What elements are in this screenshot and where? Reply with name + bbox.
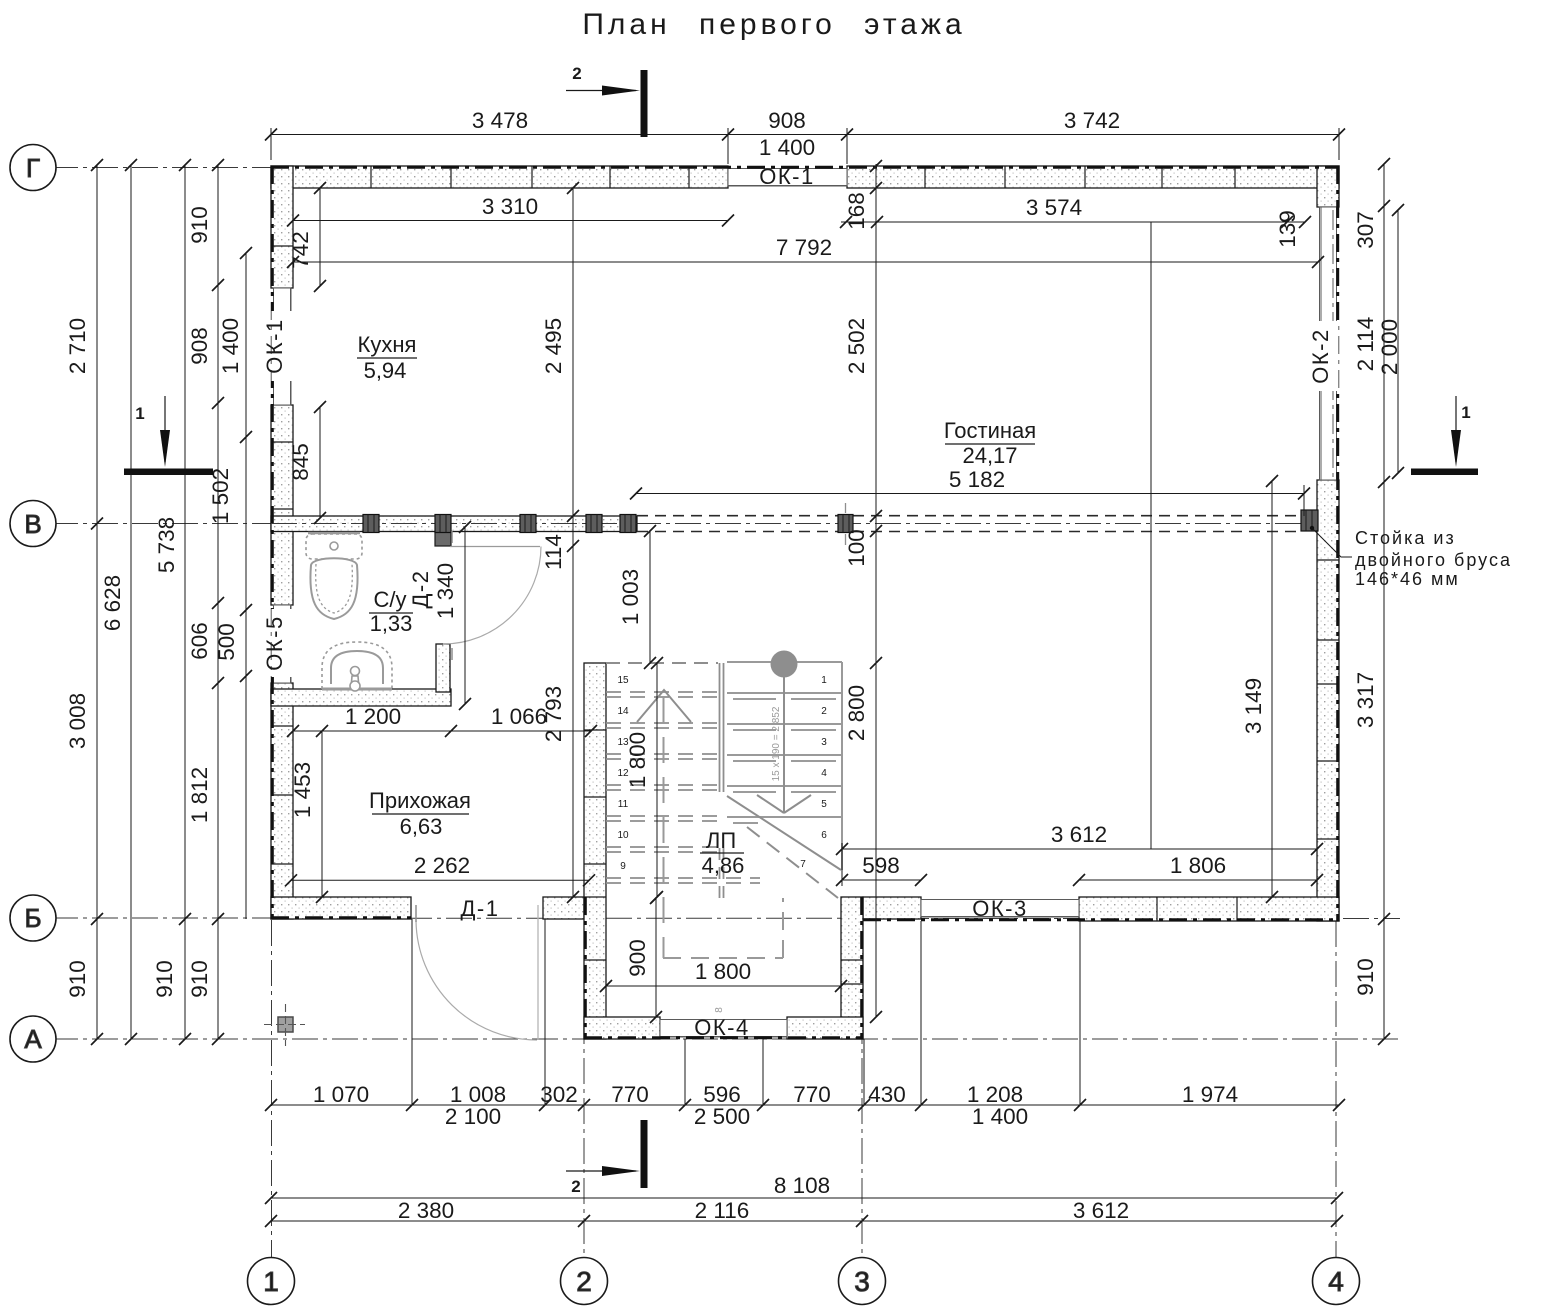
right dim column 2000 xyxy=(1397,210,1399,473)
sink back edge xyxy=(322,688,392,691)
axis В centerline over interior wall xyxy=(271,523,637,525)
up direction chevron on left flight xyxy=(637,690,691,722)
window ОК-1 left opening xyxy=(274,288,292,405)
post joint detail lines xyxy=(368,510,1312,533)
dim line 1200/1066 xyxy=(293,730,591,732)
left dim column d xyxy=(217,165,219,1039)
svg-text:1 806: 1 806 xyxy=(1170,853,1226,878)
dim line 1800 vestibule xyxy=(606,985,841,987)
window ОК-5 left opening xyxy=(274,605,292,683)
stair top boundary right part solid xyxy=(727,661,842,663)
svg-text:3 612: 3 612 xyxy=(1073,1198,1129,1223)
svg-text:2: 2 xyxy=(576,1266,592,1297)
up arrow dashed tail xyxy=(663,697,665,958)
dim line 3574 xyxy=(841,221,1305,223)
svg-text:5: 5 xyxy=(821,799,827,810)
top dimension line 3478/908/3742 xyxy=(271,134,1339,136)
witness lines bottom xyxy=(411,919,413,1105)
axis bubble 4 xyxy=(1313,1258,1360,1305)
svg-text:8 108: 8 108 xyxy=(774,1173,830,1198)
svg-text:3 149: 3 149 xyxy=(1241,678,1266,734)
svg-text:ОК-5: ОК-5 xyxy=(262,615,287,671)
stair / vestibule left wall xyxy=(584,663,606,1039)
svg-text:500: 500 xyxy=(214,623,239,661)
svg-text:1 812: 1 812 xyxy=(187,767,212,823)
svg-text:2 495: 2 495 xyxy=(541,318,566,374)
right exterior wall xyxy=(1317,166,1339,921)
svg-text:1 400: 1 400 xyxy=(218,318,243,374)
dim line 7792 xyxy=(293,261,1318,263)
left dim column a xyxy=(96,165,98,1039)
svg-text:1: 1 xyxy=(135,404,144,423)
witness x842 xyxy=(841,843,843,886)
left flight step numbers xyxy=(617,675,629,872)
svg-text:7 792: 7 792 xyxy=(776,235,832,260)
svg-text:3 574: 3 574 xyxy=(1026,195,1082,220)
svg-text:908: 908 xyxy=(187,327,212,365)
svg-text:910: 910 xyxy=(187,206,212,244)
svg-text:3 478: 3 478 xyxy=(472,108,528,133)
svg-text:1 502: 1 502 xyxy=(208,468,233,524)
door Д-2 threshold marks xyxy=(451,531,453,660)
toilet tank button xyxy=(330,542,338,550)
toilet bowl xyxy=(310,558,357,619)
svg-text:2 502: 2 502 xyxy=(844,318,869,374)
top wall outer face axis xyxy=(271,166,1339,169)
dim 1340 column xyxy=(464,527,466,704)
vestibule left wall outer face xyxy=(584,897,587,1039)
left exterior wall xyxy=(271,166,293,919)
svg-text:Кухня: Кухня xyxy=(358,332,417,357)
bottom dim row 1 xyxy=(271,1104,1339,1106)
svg-text:Гостиная: Гостиная xyxy=(944,418,1036,443)
post at right wall (double timber) xyxy=(1301,510,1318,531)
axis В centerline through beam xyxy=(275,523,1339,525)
svg-text:2 793: 2 793 xyxy=(541,686,566,742)
newel circle xyxy=(771,651,798,678)
svg-text:ОК-1: ОК-1 xyxy=(262,318,287,374)
bottom wall outer face right xyxy=(863,918,1339,921)
svg-text:В: В xyxy=(24,509,41,539)
svg-text:1 340: 1 340 xyxy=(433,563,458,619)
dim line 5182 xyxy=(636,493,1304,495)
svg-text:598: 598 xyxy=(862,853,900,878)
left wall outer face axis xyxy=(271,166,274,919)
axis bubble 3 xyxy=(839,1258,886,1305)
right wall block joints xyxy=(1317,560,1339,839)
svg-text:6 628: 6 628 xyxy=(100,575,125,631)
svg-text:2 262: 2 262 xyxy=(414,853,470,878)
dim line 598 / 1806 xyxy=(842,879,921,881)
svg-text:6,63: 6,63 xyxy=(400,814,443,839)
svg-text:11: 11 xyxy=(618,799,629,810)
axis bubble В xyxy=(10,501,56,547)
lower flight dashed outline xyxy=(663,898,783,958)
svg-text:ОК-1: ОК-1 xyxy=(759,164,815,189)
svg-text:А: А xyxy=(24,1024,42,1054)
svg-text:7: 7 xyxy=(800,859,806,870)
vestibule right wall xyxy=(841,897,863,1039)
top exterior wall xyxy=(271,166,1339,188)
axis bubble А xyxy=(10,1016,56,1062)
svg-text:1 800: 1 800 xyxy=(695,959,751,984)
door Д-2 leaf xyxy=(450,546,540,548)
svg-text:4,86: 4,86 xyxy=(702,853,745,878)
door Д-1 closed stub xyxy=(415,905,417,922)
svg-text:1 066: 1 066 xyxy=(491,704,547,729)
svg-text:8: 8 xyxy=(714,1007,725,1013)
svg-text:302: 302 xyxy=(540,1082,578,1107)
sink basin xyxy=(331,651,383,684)
svg-text:2 114: 2 114 xyxy=(1353,317,1378,372)
svg-text:1 400: 1 400 xyxy=(972,1104,1028,1129)
right flight solid treads xyxy=(727,693,842,817)
svg-text:Д-1: Д-1 xyxy=(461,896,500,921)
svg-text:908: 908 xyxy=(768,108,806,133)
beam dashed lines along В axis xyxy=(637,516,1302,532)
svg-text:1 453: 1 453 xyxy=(290,762,315,818)
svg-text:2 500: 2 500 xyxy=(694,1104,750,1129)
svg-text:3 612: 3 612 xyxy=(1051,822,1107,847)
axis В horizontal grid line xyxy=(52,523,275,525)
door Д-1 leaf xyxy=(537,905,539,1040)
bottom wall right segment (along Б) xyxy=(863,897,1339,921)
dim 2502/2800 column xyxy=(875,164,877,1017)
svg-text:910: 910 xyxy=(187,960,212,998)
thick dashed outer face overlays xyxy=(271,166,1339,1039)
svg-text:910: 910 xyxy=(65,960,90,998)
beam posts embedded in В wall xyxy=(363,510,1318,533)
dim 1003 column xyxy=(649,531,651,663)
break line diagonal xyxy=(727,796,841,870)
svg-text:3: 3 xyxy=(821,737,827,748)
svg-text:910: 910 xyxy=(1353,958,1378,996)
svg-text:1: 1 xyxy=(263,1266,279,1297)
svg-text:3 008: 3 008 xyxy=(65,693,90,749)
right wall outer face axis xyxy=(1336,166,1339,921)
right dim column main xyxy=(1383,164,1385,1039)
down arrowhead V on handrail xyxy=(757,795,811,813)
svg-text:2 100: 2 100 xyxy=(445,1104,501,1129)
svg-text:Стойка из: Стойка из xyxy=(1355,528,1456,548)
shared witness column x1151 xyxy=(1150,222,1152,849)
svg-text:ОК-2: ОК-2 xyxy=(1308,328,1333,384)
dim line 3612 upper xyxy=(842,848,1317,850)
svg-text:4: 4 xyxy=(1328,1266,1344,1297)
svg-text:845: 845 xyxy=(288,443,313,481)
dimension texts horizontal xyxy=(313,108,1238,1223)
column marker at axis 1/А xyxy=(278,1017,293,1032)
axis bubble Б xyxy=(10,895,56,941)
svg-text:9: 9 xyxy=(620,861,626,872)
svg-text:139: 139 xyxy=(1275,210,1300,248)
stair opening dashed boundary top left part xyxy=(606,662,718,664)
svg-text:2 710: 2 710 xyxy=(65,318,90,374)
svg-text:2: 2 xyxy=(821,706,827,717)
svg-text:3 742: 3 742 xyxy=(1064,108,1120,133)
svg-text:2: 2 xyxy=(571,1177,580,1196)
svg-text:ЛП: ЛП xyxy=(706,828,736,853)
left dim column b xyxy=(130,165,132,1039)
svg-text:1 003: 1 003 xyxy=(618,569,643,625)
right flight step numbers xyxy=(800,675,827,870)
grid line 3 vertical xyxy=(861,898,863,1258)
handrail center line xyxy=(783,664,785,813)
vestibule bottom wall outer face xyxy=(584,1036,863,1039)
tick marks xyxy=(91,129,1404,1228)
svg-text:1 974: 1 974 xyxy=(1182,1082,1238,1107)
svg-text:10: 10 xyxy=(617,830,629,841)
axis Б horizontal grid line xyxy=(52,917,275,919)
svg-text:2: 2 xyxy=(572,64,581,83)
svg-text:168: 168 xyxy=(844,192,869,230)
svg-text:ОК-4: ОК-4 xyxy=(694,1015,750,1040)
post witness dashes xyxy=(845,503,847,545)
axis bubble 1 xyxy=(248,1258,295,1305)
stringer continuation below break xyxy=(720,848,724,905)
left flight dashed treads xyxy=(606,692,760,883)
stair right boundary xyxy=(841,662,843,870)
svg-text:4: 4 xyxy=(821,768,827,779)
bottom wall left segment (along Б) xyxy=(271,897,411,919)
dim 1453 column xyxy=(321,731,323,897)
dim 900 column xyxy=(655,898,657,1017)
svg-text:2 800: 2 800 xyxy=(844,685,869,741)
axis Г horizontal grid line xyxy=(52,167,280,169)
svg-text:С/у: С/у xyxy=(374,587,407,612)
svg-text:2 000: 2 000 xyxy=(1377,319,1402,375)
bottom right wall block joints xyxy=(1157,897,1237,921)
left dim column c xyxy=(184,165,186,1039)
door Д-2 jamb post xyxy=(435,531,451,546)
svg-text:742: 742 xyxy=(288,231,313,269)
interior wall along В (kitchen/bathroom) xyxy=(271,516,637,532)
svg-text:1 200: 1 200 xyxy=(345,704,401,729)
axis Б extension right xyxy=(863,918,1400,920)
svg-text:1 070: 1 070 xyxy=(313,1082,369,1107)
svg-text:5,94: 5,94 xyxy=(364,358,407,383)
axis bubble Г xyxy=(10,145,56,191)
dim line 2262 xyxy=(291,879,589,881)
svg-text:ОК-3: ОК-3 xyxy=(972,896,1028,921)
vestibule right wall outer face xyxy=(860,897,863,1039)
svg-text:Д-2: Д-2 xyxy=(408,570,433,609)
window ОК-1 top opening xyxy=(728,169,847,187)
svg-text:двойного бруса: двойного бруса xyxy=(1355,550,1512,570)
svg-text:15 x 190 = 2 852: 15 x 190 = 2 852 xyxy=(771,706,782,781)
svg-text:606: 606 xyxy=(187,622,212,660)
window ОК-3 opening xyxy=(921,900,1079,918)
svg-text:3 310: 3 310 xyxy=(482,194,538,219)
svg-text:Прихожая: Прихожая xyxy=(369,788,471,813)
svg-text:6: 6 xyxy=(821,830,827,841)
sink vanity xyxy=(322,642,392,689)
svg-text:1 400: 1 400 xyxy=(759,135,815,160)
bottom dim row 2380/2116/3612 xyxy=(271,1220,1337,1222)
svg-text:307: 307 xyxy=(1353,211,1378,249)
bottom wall outer face left xyxy=(271,916,411,919)
svg-text:146*46 мм: 146*46 мм xyxy=(1355,569,1460,589)
grid line 4 vertical xyxy=(1335,921,1337,1258)
svg-text:770: 770 xyxy=(611,1082,649,1107)
svg-text:План первого этажа: План первого этажа xyxy=(582,8,965,41)
bathroom right wall (below door Д-2) xyxy=(436,644,450,692)
right flight riser dashes xyxy=(733,699,836,823)
door Д-1 swing arc xyxy=(416,921,537,1040)
bottom wall segment between door Д-1 and vestibule xyxy=(543,897,584,919)
left wall block joints xyxy=(271,246,293,864)
svg-text:15: 15 xyxy=(617,675,629,686)
svg-text:Г: Г xyxy=(26,153,40,183)
internal dim 1800 stair width xyxy=(656,663,658,897)
witness 5182 right xyxy=(1303,485,1305,516)
vestibule bottom wall xyxy=(584,1017,863,1039)
svg-text:430: 430 xyxy=(868,1082,906,1107)
axis А horizontal grid line xyxy=(52,1038,1400,1040)
window ОК-2 right opening xyxy=(1320,207,1337,480)
dimension texts rotated xyxy=(65,192,1402,998)
grid line 1 vertical xyxy=(271,920,273,1258)
svg-text:5 182: 5 182 xyxy=(949,467,1005,492)
toilet tank xyxy=(306,534,362,559)
central stringer double lines xyxy=(720,663,724,792)
svg-text:3: 3 xyxy=(854,1266,870,1297)
note text стойка xyxy=(1355,528,1512,589)
svg-text:2 380: 2 380 xyxy=(398,1198,454,1223)
top wall block joints xyxy=(371,166,1235,188)
left dim column e xyxy=(245,253,247,919)
faucet xyxy=(351,667,360,676)
svg-text:1: 1 xyxy=(1461,403,1470,422)
dim 742/845 column xyxy=(319,188,321,286)
svg-text:Б: Б xyxy=(24,903,41,933)
post mid-span xyxy=(838,515,853,533)
svg-text:910: 910 xyxy=(152,960,177,998)
svg-text:1 800: 1 800 xyxy=(625,732,650,788)
bottom dim row 8108 xyxy=(271,1197,1337,1199)
svg-text:100: 100 xyxy=(844,529,869,567)
svg-text:1,33: 1,33 xyxy=(370,611,413,636)
door Д-2 swing arc xyxy=(443,547,541,645)
svg-text:14: 14 xyxy=(617,706,629,717)
window ОК-4 opening xyxy=(660,1020,787,1038)
svg-text:114: 114 xyxy=(541,534,566,570)
svg-text:770: 770 xyxy=(793,1082,831,1107)
svg-text:2 116: 2 116 xyxy=(695,1198,750,1223)
svg-text:24,17: 24,17 xyxy=(962,443,1017,468)
svg-text:900: 900 xyxy=(625,939,650,977)
svg-text:5 738: 5 738 xyxy=(154,517,179,573)
dim 3149 column xyxy=(1271,481,1273,897)
grid line 2 vertical xyxy=(583,898,585,1258)
break line dashed diagonal xyxy=(747,827,838,898)
dim line 3310 xyxy=(293,220,728,222)
bathroom bottom wall xyxy=(271,689,451,706)
dim 2495/114/2793 column xyxy=(572,188,574,897)
callout leader to стойка note xyxy=(1312,528,1352,557)
axis bubble 2 xyxy=(561,1258,608,1305)
svg-text:1: 1 xyxy=(821,675,827,686)
svg-text:3 317: 3 317 xyxy=(1353,672,1378,728)
